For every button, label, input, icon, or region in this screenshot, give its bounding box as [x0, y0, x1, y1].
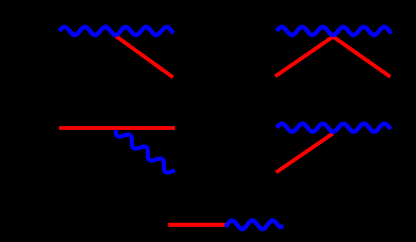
photon line B4 (middle-right horizontal wavy) — [277, 124, 391, 132]
photon line B2 (top-right horizontal wavy) — [277, 27, 392, 35]
photon line B5 (bottom horizontal wavy continuation of E5) — [225, 221, 283, 230]
fermion line E3 (middle-left horizontal) — [59, 126, 175, 130]
fermion line E2b (right leg of vertex under B2) — [333, 37, 390, 77]
photon line B3 (wavy diagonal from E3 midpoint down-right) — [116, 130, 175, 173]
fermion line E2a (left leg of vertex under B2) — [275, 37, 333, 77]
fermion line E4 (diagonal up-right into B4 trough) — [276, 133, 333, 172]
photon line B1 (top-left horizontal wavy) — [59, 27, 173, 35]
fermion line E1 (from B1 trough down-right, top-left) — [116, 36, 174, 78]
fermion line E5 (bottom horizontal) — [168, 223, 225, 227]
